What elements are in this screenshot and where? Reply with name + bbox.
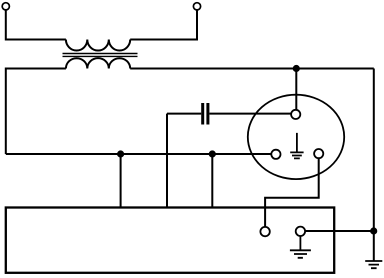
transformer T1 primary winding [66, 40, 130, 51]
socket pin 1 (top) [291, 110, 300, 119]
ground (socket center) [290, 133, 303, 159]
transformer T1 secondary winding [66, 58, 130, 68]
wire J1 to primary [6, 10, 66, 40]
ground (below E2) [290, 236, 311, 258]
wire right edge down [373, 69, 375, 262]
node junction secondary/pin1 [293, 65, 300, 72]
wire secondary left to bus [6, 69, 66, 155]
wire junction down to pin 1 [295, 69, 297, 110]
wire secondary right [130, 68, 374, 70]
terminal J2 (top-right) [193, 3, 200, 10]
terminal J1 (top-left) [2, 3, 9, 10]
tube socket V1 outline [248, 95, 344, 179]
terminal E1 (chassis left) [260, 227, 269, 236]
socket pin 3 (right) [314, 149, 323, 158]
transformer T1 core [63, 54, 138, 57]
wire capacitor right lead to pin 1 [209, 113, 291, 115]
wire dropper from capacitor node to chassis [166, 114, 168, 208]
wire dropper B to chassis [211, 154, 213, 207]
wire primary to J2 [130, 10, 197, 40]
node junction bus A [117, 150, 124, 157]
wire dropper A to chassis [120, 154, 122, 207]
wire bus to socket pin 2 [6, 153, 272, 155]
node junction bus B [209, 150, 216, 157]
ground (bottom right) [365, 261, 382, 268]
node junction right edge [370, 227, 377, 234]
capacitor C1 [203, 103, 208, 125]
chassis box [6, 208, 334, 273]
terminal E2 (chassis right) [296, 227, 305, 236]
wire pin 3 down to terminal E1 [265, 158, 319, 226]
wire capacitor left lead [167, 113, 201, 115]
wire E2 to right edge [305, 230, 374, 232]
socket pin 2 (left) [271, 150, 280, 159]
